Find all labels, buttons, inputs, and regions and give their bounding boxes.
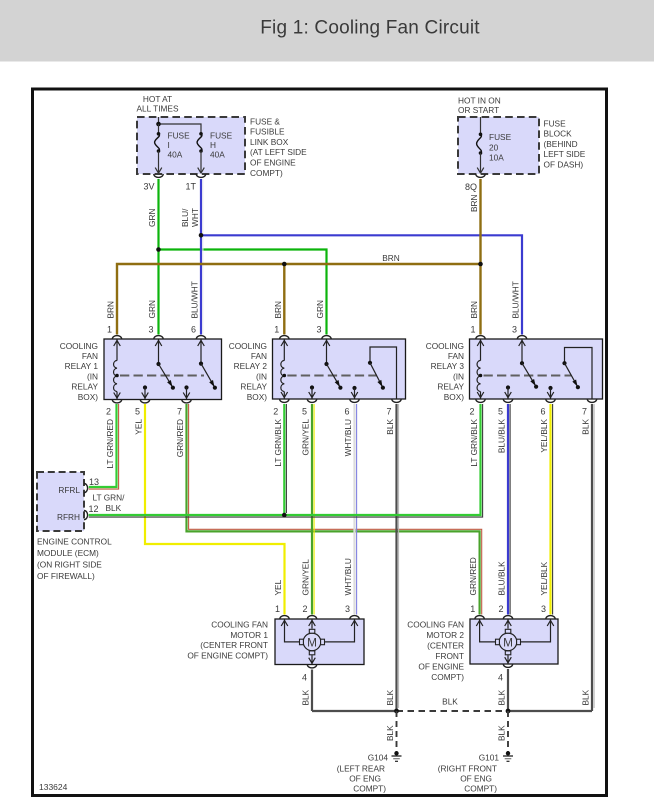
svg-text:M: M xyxy=(307,635,317,649)
motor2 pin 4 terminal xyxy=(498,664,513,683)
relay1 switch from pin3 xyxy=(155,339,175,390)
svg-text:OF ENGINE: OF ENGINE xyxy=(418,662,464,672)
svg-text:WHT: WHT xyxy=(190,208,200,227)
relay3 coil pin1 to pin2 xyxy=(477,339,484,399)
wire YEL relay1 pin5 to motor1 pin1 xyxy=(145,404,285,615)
wire BRN drop to relay2 pin1 xyxy=(283,264,285,335)
label LT GRN/BLK below relay2 pin2 xyxy=(273,419,283,467)
fuse I 40A xyxy=(155,124,190,173)
relay1 junction coil-armature xyxy=(115,374,119,378)
svg-text:2: 2 xyxy=(469,407,474,417)
svg-text:5: 5 xyxy=(302,407,307,417)
label YEL/BLK below relay3 pin6 xyxy=(539,419,549,453)
label COOLING FAN MOTOR 1 (CENTER FRONT OF ENGINE COMPT) xyxy=(187,620,268,661)
svg-text:4: 4 xyxy=(302,673,307,683)
label BLK at G101 drop xyxy=(497,725,507,741)
relay2 pin 5 terminal xyxy=(302,399,317,417)
svg-text:FUSE: FUSE xyxy=(489,132,512,142)
svg-text:BRN: BRN xyxy=(273,301,283,319)
wire internal feed jumper fuse I to fuse H xyxy=(159,117,202,134)
svg-text:FUSIBLE: FUSIBLE xyxy=(250,127,285,137)
wire LT GRN/BLK ECM pin12 to relay3 pin2 xyxy=(89,404,483,517)
junction BRN bus at relay2 drop xyxy=(282,262,287,267)
motor2 pin 1 terminal xyxy=(470,604,484,619)
wire BLK dashed drop to G104 xyxy=(396,711,398,752)
label BLU/ WHT two-line vertical xyxy=(180,208,200,227)
relay1 coil pin1 to pin2 xyxy=(114,339,121,400)
ECM pin 13 terminal xyxy=(84,477,99,493)
label YEL above motor1 pin1 xyxy=(273,579,283,595)
svg-text:M: M xyxy=(503,635,513,649)
svg-text:BLK: BLK xyxy=(106,503,122,513)
svg-text:2: 2 xyxy=(498,604,503,614)
relay2 pin 7 terminal xyxy=(386,399,401,417)
svg-text:RELAY: RELAY xyxy=(437,382,464,392)
motor1 symbol M xyxy=(300,629,325,655)
svg-text:COOLING: COOLING xyxy=(426,341,464,351)
svg-text:LT GRN/BLK: LT GRN/BLK xyxy=(469,419,479,467)
relay1 pin 7 terminal xyxy=(177,400,191,417)
relay3 pin 6 terminal xyxy=(540,399,555,417)
label COOLING FAN RELAY 2 (IN RELAY BOX) xyxy=(229,341,268,402)
motor2 pin 2 terminal xyxy=(498,604,512,619)
svg-text:BLK: BLK xyxy=(581,419,591,435)
label BRN at relay2 pin1 xyxy=(273,301,283,319)
junction BRN bus at fuse drop xyxy=(478,262,483,267)
svg-text:GRN/YEL: GRN/YEL xyxy=(301,419,311,456)
svg-text:(ON RIGHT SIDE: (ON RIGHT SIDE xyxy=(37,560,102,570)
label BLK below relay2 pin7 xyxy=(385,419,395,435)
label BLU/BLK above motor2 pin2 xyxy=(497,561,507,596)
svg-text:GRN/RED: GRN/RED xyxy=(468,557,478,595)
svg-text:1: 1 xyxy=(274,325,279,335)
junction ground bus at G101 drop xyxy=(506,709,511,714)
relay2 pin5 contact stub xyxy=(309,385,316,398)
label LT GRN/RED below relay1 pin2 xyxy=(105,419,115,468)
wire GRN/RED relay1 pin7 to motor2 pin1 xyxy=(187,404,482,615)
svg-text:WHT/BLU: WHT/BLU xyxy=(343,419,353,456)
svg-text:BLU/BLK: BLU/BLK xyxy=(497,561,507,596)
label LT GRN/BLK below relay3 pin2 xyxy=(469,419,479,467)
svg-text:GRN: GRN xyxy=(315,300,325,318)
svg-text:5: 5 xyxy=(135,407,140,417)
svg-text:12: 12 xyxy=(89,504,99,514)
label G104 (LEFT REAR OF ENG COMPT) xyxy=(337,753,389,794)
svg-text:LEFT SIDE: LEFT SIDE xyxy=(544,149,586,159)
svg-text:OF ENGINE COMPT): OF ENGINE COMPT) xyxy=(187,650,268,660)
wire BLK motor2 pin4 to ground bus xyxy=(507,669,509,711)
ground G104 xyxy=(392,751,402,761)
relay3 pin 7 terminal xyxy=(582,399,597,417)
svg-text:6: 6 xyxy=(191,325,196,335)
svg-text:7: 7 xyxy=(177,407,182,417)
svg-text:YEL: YEL xyxy=(273,579,283,595)
svg-text:10A: 10A xyxy=(489,153,504,163)
relay K2 COOLING FAN RELAY 2 box xyxy=(273,339,406,399)
connector terminal 3V xyxy=(143,174,163,192)
motor2 symbol M xyxy=(496,629,521,655)
svg-text:RFRL: RFRL xyxy=(58,485,80,495)
relay2 junction coil-armature xyxy=(283,374,287,378)
svg-text:BLK: BLK xyxy=(385,419,395,435)
label GRN/YEL above motor1 pin2 xyxy=(301,559,311,596)
svg-text:6: 6 xyxy=(344,407,349,417)
relay2 pin 2 terminal xyxy=(273,399,289,417)
svg-text:2: 2 xyxy=(106,407,111,417)
svg-text:ENGINE CONTROL: ENGINE CONTROL xyxy=(37,537,112,547)
svg-text:FAN: FAN xyxy=(251,351,267,361)
junction BLU/WHT branch xyxy=(199,233,204,238)
svg-text:LINK BOX: LINK BOX xyxy=(250,137,289,147)
label BLK above bus at relay2 pin7 xyxy=(385,689,395,705)
relay3 switch from pin7 internal riser xyxy=(562,348,592,400)
svg-text:40A: 40A xyxy=(168,149,183,159)
svg-text:(CENTER: (CENTER xyxy=(427,641,464,651)
diagram frame xyxy=(33,89,607,796)
svg-text:BLU/WHT: BLU/WHT xyxy=(190,281,200,318)
label YEL below relay1 pin5 xyxy=(134,419,144,435)
relay2 switch from pin3 xyxy=(323,339,342,390)
svg-text:3: 3 xyxy=(316,325,321,335)
label FUSE &amp; FUSIBLE LINK BOX location xyxy=(250,116,307,178)
svg-text:BRN: BRN xyxy=(469,301,479,319)
svg-text:7: 7 xyxy=(386,407,391,417)
relay2 pin 6 terminal xyxy=(344,399,359,417)
motor2 internal wiring xyxy=(476,619,554,664)
svg-text:1: 1 xyxy=(107,325,112,335)
svg-text:13: 13 xyxy=(89,477,99,487)
relay1 pin 6 terminal xyxy=(191,325,206,340)
label WHT/BLU above motor1 pin3 xyxy=(343,558,353,595)
svg-text:(BEHIND: (BEHIND xyxy=(544,139,578,149)
svg-text:6: 6 xyxy=(540,407,545,417)
svg-text:OF FIREWALL): OF FIREWALL) xyxy=(37,571,95,581)
label BRN on bus xyxy=(382,253,400,263)
svg-text:FUSE: FUSE xyxy=(168,131,191,141)
svg-text:FUSE &: FUSE & xyxy=(250,116,280,126)
relay1 pin 1 terminal xyxy=(107,325,122,340)
relay K3 COOLING FAN RELAY 3 box xyxy=(470,339,603,399)
relay3 pin6 contact stub xyxy=(547,386,554,399)
fuse block (dashed connector box, behind dash) xyxy=(458,117,539,174)
svg-text:COOLING: COOLING xyxy=(229,341,267,351)
svg-text:OR START: OR START xyxy=(458,105,499,115)
label BLK on ground bus xyxy=(442,697,458,707)
svg-text:3: 3 xyxy=(512,325,517,335)
svg-text:FRONT: FRONT xyxy=(435,651,464,661)
svg-text:(AT LEFT SIDE: (AT LEFT SIDE xyxy=(250,147,307,157)
junction dot fuse feed xyxy=(156,122,161,127)
label BLK at G104 drop xyxy=(385,725,395,741)
svg-text:5: 5 xyxy=(498,407,503,417)
label GRN vertical upper xyxy=(147,209,157,227)
svg-text:OF ENG: OF ENG xyxy=(460,774,492,784)
relay1 pin5 contact stub xyxy=(142,385,149,399)
svg-text:BLK: BLK xyxy=(385,689,395,705)
svg-text:YEL/BLK: YEL/BLK xyxy=(539,561,549,595)
wire BLU/WHT branch to relay3 pin3 xyxy=(201,235,522,334)
label COOLING FAN RELAY 1 (IN RELAY BOX) xyxy=(60,341,99,402)
svg-text:3: 3 xyxy=(541,604,546,614)
junction GRN branch xyxy=(156,247,161,252)
svg-text:RELAY: RELAY xyxy=(71,382,98,392)
ground G101 xyxy=(503,751,513,761)
svg-text:LT GRN/RED: LT GRN/RED xyxy=(105,419,115,468)
svg-text:FAN: FAN xyxy=(448,351,464,361)
svg-text:COOLING FAN: COOLING FAN xyxy=(211,620,268,630)
svg-text:(RIGHT FRONT: (RIGHT FRONT xyxy=(438,764,497,774)
label BLK above bus at relay3 pin7 xyxy=(581,689,591,705)
svg-text:(CENTER FRONT: (CENTER FRONT xyxy=(200,640,268,650)
wire YEL/BLK relay3 pin6 to motor2 pin3 xyxy=(551,404,553,615)
wire LT GRN/BLK relay2 pin2 drop xyxy=(284,404,286,515)
wire BRN bus horizontal relay1 to relay3 xyxy=(117,264,481,335)
motor M2 COOLING FAN MOTOR 2 box xyxy=(470,619,558,664)
svg-text:8Q: 8Q xyxy=(465,182,477,192)
motor1 pin 1 terminal xyxy=(275,604,289,619)
svg-text:RELAY 3: RELAY 3 xyxy=(431,361,465,371)
svg-text:2: 2 xyxy=(302,604,307,614)
label BLU/WHT at relay1 pin6 xyxy=(190,281,200,318)
label RFRL xyxy=(58,485,80,495)
relay1 pin 2 terminal xyxy=(106,400,122,417)
label LT GRN/ BLK at ECM pin12 wire xyxy=(93,493,126,514)
relay1 pin 3 terminal xyxy=(148,325,163,340)
svg-text:COOLING: COOLING xyxy=(60,341,98,351)
motor1 pin 3 terminal xyxy=(345,604,359,619)
relay1 pin7 contact stub xyxy=(183,385,190,399)
svg-text:MOTOR 2: MOTOR 2 xyxy=(426,630,464,640)
relay3 switch from pin3 xyxy=(519,339,539,389)
relay2 pin6 contact stub xyxy=(351,386,358,399)
svg-text:RELAY 2: RELAY 2 xyxy=(234,361,268,371)
motor2 pin 3 terminal xyxy=(541,604,555,619)
label GRN/RED above motor2 pin1 xyxy=(468,557,478,595)
label GRN at relay1 pin3 xyxy=(147,300,157,318)
label BRN at relay3 pin1 xyxy=(469,301,479,319)
relay3 armature dashed link xyxy=(484,375,572,377)
wire BLK ground bus left segment xyxy=(312,710,397,712)
label BRN at relay1 pin1 xyxy=(106,301,116,319)
svg-text:(LEFT REAR: (LEFT REAR xyxy=(337,764,385,774)
relay3 pin 3 terminal xyxy=(512,325,527,340)
wire BRN fuse 8Q down to relay3 pin1 xyxy=(479,179,481,335)
relay3 pin5 contact stub xyxy=(505,385,512,398)
label G101 (RIGHT FRONT OF ENG COMPT) xyxy=(438,753,500,794)
svg-text:BOX): BOX) xyxy=(247,392,268,402)
svg-text:ALL TIMES: ALL TIMES xyxy=(137,103,179,113)
svg-text:LT GRN/: LT GRN/ xyxy=(93,493,126,503)
junction ground bus at G104 drop xyxy=(394,709,399,714)
wire GRN/YEL relay2 pin5 to motor1 pin2 xyxy=(312,404,314,615)
svg-text:COMPT): COMPT) xyxy=(431,672,464,682)
svg-text:COOLING FAN: COOLING FAN xyxy=(407,620,464,630)
wire GRN fuse I 3V to relay1 pin3 xyxy=(157,179,159,335)
svg-text:WHT/BLU: WHT/BLU xyxy=(343,558,353,595)
fuse 20 10A xyxy=(477,117,512,173)
wire BLK ground bus dashed middle segment xyxy=(397,710,509,712)
relay1 armature dashed link xyxy=(120,375,204,377)
ECM engine control module box xyxy=(37,472,84,531)
label BLU/BLK below relay3 pin5 xyxy=(497,419,507,454)
svg-text:OF ENG: OF ENG xyxy=(349,774,381,784)
label RFRH xyxy=(57,512,80,522)
relay1 switch from pin6 xyxy=(198,339,217,390)
svg-text:GRN: GRN xyxy=(147,300,157,318)
svg-text:RELAY 1: RELAY 1 xyxy=(65,361,99,371)
fuse H 40A xyxy=(197,131,232,174)
fuse &amp; fusible link box (dashed connector box) xyxy=(137,117,245,174)
svg-text:G101: G101 xyxy=(479,753,500,763)
svg-text:40A: 40A xyxy=(210,149,225,159)
svg-text:1: 1 xyxy=(470,604,475,614)
relay3 pin 1 terminal xyxy=(470,325,485,340)
svg-text:7: 7 xyxy=(582,407,587,417)
label WHT/BLU below relay2 pin6 xyxy=(343,419,353,456)
svg-text:OF ENGINE: OF ENGINE xyxy=(250,158,296,168)
svg-text:3V: 3V xyxy=(143,182,154,192)
wire BLK motor1 pin4 to ground bus xyxy=(311,670,313,712)
svg-text:BLK: BLK xyxy=(385,725,395,741)
svg-text:1: 1 xyxy=(275,604,280,614)
label COOLING FAN RELAY 3 (IN RELAY BOX) xyxy=(426,341,465,402)
junction LT GRN/BLK at relay2 pin2 xyxy=(282,513,287,518)
svg-text:3: 3 xyxy=(345,604,350,614)
svg-text:GRN/YEL: GRN/YEL xyxy=(301,559,311,596)
svg-text:Fig 1: Cooling Fan Circuit: Fig 1: Cooling Fan Circuit xyxy=(260,18,480,39)
relay3 pin 5 terminal xyxy=(498,399,513,417)
label GRN at relay2 pin3 xyxy=(315,300,325,318)
relay2 armature dashed link xyxy=(287,375,377,377)
label GRN/RED below relay1 pin7 xyxy=(175,419,185,457)
svg-text:4: 4 xyxy=(498,673,503,683)
svg-text:BRN: BRN xyxy=(469,194,479,212)
label GRN/YEL below relay2 pin5 xyxy=(301,419,311,456)
label FUSE BLOCK location xyxy=(544,118,586,169)
ECM pin 12 terminal xyxy=(84,504,99,520)
svg-text:(IN: (IN xyxy=(87,371,98,381)
svg-text:BLK: BLK xyxy=(581,689,591,705)
svg-text:BOX): BOX) xyxy=(78,392,99,402)
label BLU/WHT at relay3 pin3 xyxy=(511,281,521,318)
wire BLK relay3 pin7 to ground bus xyxy=(592,404,594,711)
svg-text:BOX): BOX) xyxy=(444,392,465,402)
label BRN vertical below fuse block xyxy=(469,194,479,212)
motor1 pin 2 terminal xyxy=(302,604,316,619)
wire BLU/WHT fuse H 1T to relay1 pin6 xyxy=(201,179,203,335)
svg-text:GRN: GRN xyxy=(147,209,157,227)
svg-text:LT GRN/BLK: LT GRN/BLK xyxy=(273,419,283,467)
label COOLING FAN MOTOR 2 (CENTER FRONT OF ENGINE COMPT) xyxy=(407,620,464,683)
wire GRN branch to relay2 pin3 xyxy=(159,250,327,335)
relay3 junction coil-armature xyxy=(479,374,483,378)
relay K1 COOLING FAN RELAY 1 box xyxy=(104,339,222,400)
label BLK motor2 pin4 xyxy=(497,689,507,705)
svg-text:GRN/RED: GRN/RED xyxy=(175,419,185,457)
svg-text:BLOCK: BLOCK xyxy=(544,129,573,139)
svg-text:133624: 133624 xyxy=(39,782,68,792)
svg-text:OF DASH): OF DASH) xyxy=(544,160,584,170)
title bar xyxy=(0,0,654,62)
label HOT AT ALL TIMES xyxy=(137,94,179,113)
svg-text:MODULE (ECM): MODULE (ECM) xyxy=(37,548,99,558)
svg-text:2: 2 xyxy=(273,407,278,417)
label HOT IN ON OR START xyxy=(458,96,501,115)
relay3 pin 2 terminal xyxy=(469,399,485,417)
wire LT GRN/RED relay1 pin2 to ECM pin13 xyxy=(89,404,119,489)
relay2 pin 1 terminal xyxy=(274,325,289,340)
svg-text:BRN: BRN xyxy=(106,301,116,319)
figure number 133624 xyxy=(39,782,68,792)
label BLK motor1 pin4 xyxy=(301,689,311,705)
svg-text:(IN: (IN xyxy=(256,371,267,381)
svg-text:COMPT): COMPT) xyxy=(353,784,386,794)
wire BLK ground bus right segment xyxy=(508,710,592,712)
svg-text:YEL: YEL xyxy=(134,419,144,435)
svg-text:COMPT): COMPT) xyxy=(250,168,283,178)
svg-text:BLK: BLK xyxy=(301,689,311,705)
wire WHT/BLU relay2 pin6 to motor1 pin3 xyxy=(355,404,357,615)
svg-text:FAN: FAN xyxy=(82,351,98,361)
label YEL/BLK above motor2 pin3 xyxy=(539,561,549,595)
wire BLU/BLK relay3 pin5 to motor2 pin2 xyxy=(508,404,510,615)
motor M1 COOLING FAN MOTOR 1 box xyxy=(275,619,364,665)
svg-text:BLK: BLK xyxy=(497,725,507,741)
svg-text:COMPT): COMPT) xyxy=(464,784,497,794)
svg-text:3: 3 xyxy=(148,325,153,335)
svg-text:BLK: BLK xyxy=(497,689,507,705)
svg-text:YEL/BLK: YEL/BLK xyxy=(539,419,549,453)
svg-text:BLK: BLK xyxy=(442,697,458,707)
relay1 pin 5 terminal xyxy=(135,400,150,417)
svg-text:20: 20 xyxy=(489,142,499,152)
relay2 pin 3 terminal xyxy=(316,325,331,340)
svg-text:1T: 1T xyxy=(185,182,196,192)
svg-text:BLU/BLK: BLU/BLK xyxy=(497,419,507,454)
motor1 internal wiring xyxy=(281,619,358,665)
relay2 switch from pin7 internal riser xyxy=(368,347,397,399)
svg-text:(IN: (IN xyxy=(453,371,464,381)
connector terminal 1T xyxy=(185,174,205,192)
motor1 pin 4 terminal xyxy=(302,665,317,683)
svg-text:FUSE: FUSE xyxy=(544,118,567,128)
svg-text:BRN: BRN xyxy=(382,253,400,263)
relay2 coil pin1 to pin2 xyxy=(281,339,288,399)
svg-text:1: 1 xyxy=(470,325,475,335)
svg-text:BLU/: BLU/ xyxy=(180,208,190,227)
svg-text:G104: G104 xyxy=(368,753,389,763)
svg-text:BLU/WHT: BLU/WHT xyxy=(511,281,521,318)
label ENGINE CONTROL MODULE (ECM) (ON RIGHT SIDE OF FIREWALL) xyxy=(37,537,112,582)
svg-text:RFRH: RFRH xyxy=(57,512,80,522)
wire BLK relay2 pin7 to ground bus xyxy=(397,404,399,711)
label BLK below relay3 pin7 xyxy=(581,419,591,435)
svg-text:RELAY: RELAY xyxy=(240,382,267,392)
connector terminal 8Q xyxy=(465,174,485,192)
wire BLK dashed drop to G101 xyxy=(507,711,509,752)
svg-text:MOTOR 1: MOTOR 1 xyxy=(230,630,268,640)
